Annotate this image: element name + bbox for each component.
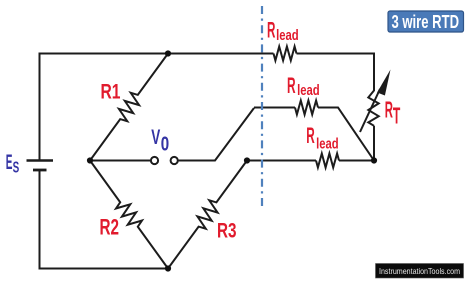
- watermark InstrumentationTools.com: [376, 264, 464, 279]
- resistor Rlead3 (bottom lead wire): [316, 154, 339, 168]
- resistor Rlead2 (middle lead wire): [295, 101, 318, 115]
- wire top horizontal left segment: [40, 53, 274, 55]
- resistor R1: [90, 54, 168, 161]
- battery Es: [27, 161, 54, 171]
- label RT: [385, 97, 401, 129]
- V0 terminal left (open circle): [151, 157, 158, 164]
- svg-text:0: 0: [161, 133, 169, 155]
- label Rlead2: [287, 73, 320, 99]
- junction node C (R3 / bottom lead): [244, 157, 250, 163]
- svg-text:S: S: [13, 159, 20, 176]
- label R3: [217, 219, 237, 243]
- wire bottom lead left segment: [247, 160, 316, 162]
- svg-text:R2: R2: [100, 214, 120, 239]
- svg-text:R: R: [287, 73, 296, 98]
- label Es: [6, 150, 20, 176]
- svg-text:V: V: [151, 126, 160, 149]
- wire bottom horizontal: [39, 268, 169, 270]
- junction node D (RT bottom): [371, 157, 377, 163]
- resistor Rlead1 (top lead wire): [274, 47, 297, 61]
- junction node bottom (bridge bottom): [165, 265, 171, 271]
- svg-text:InstrumentationTools.com: InstrumentationTools.com: [379, 267, 460, 276]
- V0 terminal right (open circle): [171, 157, 178, 164]
- svg-text:3 wire RTD: 3 wire RTD: [392, 11, 460, 32]
- title box 3 wire RTD: [388, 11, 464, 32]
- svg-text:R: R: [267, 17, 275, 42]
- label R2: [100, 214, 120, 239]
- boundary dash-dot separator line: [261, 6, 263, 210]
- wire left node to V0 terminal: [90, 160, 151, 162]
- wire V0 terminal to middle lead riser: [178, 108, 254, 161]
- svg-text:lead: lead: [276, 27, 299, 44]
- label Rlead1: [267, 17, 299, 44]
- RT variable-resistor arrow: [360, 70, 391, 133]
- resistor RT (RTD element): [368, 91, 378, 126]
- wire bottom lead right segment: [339, 160, 374, 162]
- svg-text:T: T: [393, 103, 400, 129]
- svg-text:lead: lead: [316, 135, 339, 152]
- svg-text:R1: R1: [101, 81, 121, 104]
- label R1: [101, 81, 121, 104]
- svg-text:lead: lead: [297, 82, 320, 99]
- wire right vertical upper: [373, 53, 375, 92]
- resistor R2: [90, 161, 168, 269]
- resistor R3: [168, 161, 247, 269]
- label V0: [151, 126, 169, 155]
- label Rlead3: [306, 123, 338, 152]
- wire top horizontal right segment: [297, 53, 375, 55]
- junction node left (bridge left): [87, 157, 93, 163]
- wire right vertical lower: [373, 126, 375, 161]
- wire left vertical lower: [39, 170, 41, 269]
- svg-text:R3: R3: [217, 219, 237, 243]
- wire middle lead left segment: [254, 107, 295, 109]
- wire middle lead to RT bottom junction: [318, 108, 374, 161]
- wire left vertical upper (to battery): [39, 53, 41, 161]
- svg-text:E: E: [6, 150, 13, 174]
- svg-text:R: R: [306, 123, 315, 148]
- junction node top (bridge top): [165, 50, 171, 56]
